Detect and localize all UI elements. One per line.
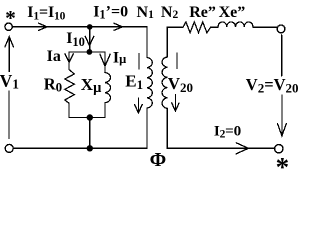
wire top rail primary [12,26,147,28]
arrow V2 upper shaft [281,35,283,76]
junction dot top rail [87,24,93,30]
resistor Re'' [183,22,211,33]
wire shunt bottom bar [69,117,105,119]
terminal bottom right [275,145,283,153]
wire secondary top to resistor [167,26,183,28]
svg-text:Φ: Φ [150,149,167,171]
wire R0 branch top [68,52,70,70]
inductor Xmu [105,73,111,103]
wire shunt stem to rail [89,118,91,149]
svg-text:*: * [5,6,16,30]
wire resistor to inductor [211,26,218,28]
arrow E1 tick [138,54,140,70]
arrowhead I1' on top rail [114,23,123,30]
arrow E1 down: shaft and head [135,98,143,113]
svg-text:Re”: Re” [189,4,216,21]
junction dot shunt split [87,49,93,55]
arrow V1 up: head and upper shaft [5,37,14,72]
arrowhead Ia down [65,54,73,63]
arrow V20 tick [176,53,178,69]
resistor R0 [65,70,75,104]
arrowhead I1 on top rail [39,23,47,30]
junction dot shunt bottom bar [87,114,93,120]
svg-text:Xe”: Xe” [219,4,246,21]
wire Xmu branch bottom [104,103,106,118]
arrow V1 lower shaft [8,91,10,139]
wire bottom rail right [167,147,274,149]
arrowhead Imu down [100,54,110,66]
wire shunt top bar [69,51,105,53]
wire R0 branch bottom [68,103,70,117]
inductor Xe'' [218,22,253,27]
svg-text:*: * [276,152,290,172]
wire secondary vertical top [166,27,168,57]
arrowhead I10 down [85,36,94,45]
wire secondary vertical bottom [166,108,168,148]
wire bottom rail left [13,147,147,149]
wire inductor to right terminal [253,26,277,28]
svg-text:Iμ: Iμ [113,49,126,66]
winding primary N1 [147,58,152,109]
wire shunt drop from top junction [89,27,91,52]
terminal top right [277,25,285,33]
svg-text:I2=0: I2=0 [214,123,242,141]
wire primary vertical top [146,27,148,58]
junction dot bottom rail [87,145,93,151]
arrowhead I2 on bottom rail [236,143,248,154]
winding secondary N2 [162,57,167,108]
arrow V20 down: shaft and head [172,95,179,112]
wire primary vertical bottom [146,108,148,148]
arrow V2 down: lower shaft and head [278,95,287,136]
svg-text:Ia: Ia [47,48,61,65]
wire Xmu branch top [104,52,106,73]
terminal bottom left [5,144,13,152]
svg-text:I1’=0: I1’=0 [93,4,128,22]
terminal top left [5,23,12,30]
